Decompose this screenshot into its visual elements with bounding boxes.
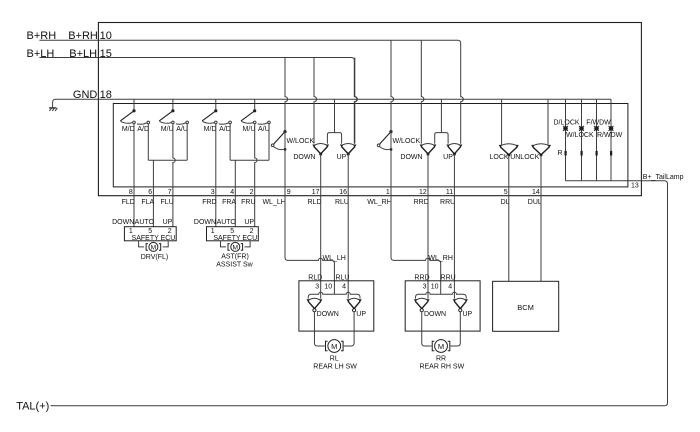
net label GND <box>73 89 98 101</box>
switch FR manual/auto down (M/D A/D) <box>202 99 231 133</box>
net label B+RH <box>27 30 98 42</box>
pin 1 WL_RH <box>367 189 392 206</box>
wire RRU (driver apex to pin 11) <box>453 154 455 196</box>
pin 5 DL <box>501 189 510 206</box>
net label RRU (rear box) <box>441 274 456 281</box>
svg-text:DRV(FL): DRV(FL) <box>141 254 168 261</box>
net label WL_LH <box>323 255 346 262</box>
svg-text:4: 4 <box>342 283 346 290</box>
switch W/LOCK right <box>377 130 420 151</box>
svg-text:DUL: DUL <box>528 199 542 206</box>
svg-text:10: 10 <box>431 283 439 290</box>
switch assembly inner box <box>113 104 628 187</box>
svg-text:REAR LH SW: REAR LH SW <box>313 364 357 371</box>
wire GND to LOCK driver <box>501 99 503 145</box>
wire DL (LOCK apex to pin 5) <box>508 155 510 196</box>
pin 6 FLA <box>141 189 154 206</box>
svg-text:UNLOCK: UNLOCK <box>510 154 540 161</box>
pin 10 <box>100 30 112 42</box>
resistor R4 <box>610 151 612 156</box>
pin 11 RRU <box>440 189 455 206</box>
svg-text:D/LOCK: D/LOCK <box>554 119 580 126</box>
wire RRD (driver apex to pin 12) <box>427 154 429 196</box>
wire FL auto join <box>148 159 187 161</box>
svg-text:M: M <box>151 244 157 251</box>
pin 13 <box>631 183 639 190</box>
BCM box <box>493 281 559 331</box>
svg-text:ASSIST Sw: ASSIST Sw <box>216 261 253 268</box>
svg-text:A/D: A/D <box>219 126 231 133</box>
wire WL_LH pin 9 to rear LH switch pin 10 <box>285 196 334 295</box>
driver UP rear-left (RLU) <box>337 143 357 161</box>
svg-text:M: M <box>331 342 337 351</box>
wire FRA (auto tap to pin 4) <box>234 160 236 227</box>
resistor R3 <box>596 151 598 156</box>
svg-text:M/U: M/U <box>161 126 174 133</box>
net label B+LH <box>27 48 98 60</box>
rear RH window switch unit <box>405 281 480 371</box>
wire FR A/D to auto join <box>229 124 231 161</box>
wire DUL pin 14 to BCM <box>540 196 542 282</box>
wire B+RH rail <box>39 40 463 144</box>
svg-text:10: 10 <box>324 283 332 290</box>
pin 9 WL_LH <box>262 189 290 206</box>
wire DL pin 5 to BCM <box>508 196 510 282</box>
wire RLU pin 16 to rear LH switch pin 4 <box>347 196 349 299</box>
svg-text:DOWN: DOWN <box>400 154 422 161</box>
svg-text:W/LOCK: W/LOCK <box>566 132 594 139</box>
svg-text:A/U: A/U <box>258 126 270 133</box>
svg-text:R/WDW: R/WDW <box>597 132 623 139</box>
resistor R1 <box>565 151 567 156</box>
wire FRD (M/D to pin 3) <box>215 124 217 227</box>
svg-text:RRD: RRD <box>414 274 429 281</box>
driver LOCK <box>490 144 519 162</box>
svg-text:RR: RR <box>436 355 446 362</box>
switch FL manual/auto up (M/U A/U) <box>159 99 188 133</box>
svg-text:AUTO: AUTO <box>217 219 237 226</box>
feed tee RRD/RRU from GND <box>435 99 448 143</box>
wire FL A/U to auto join <box>186 124 188 161</box>
svg-text:A/D: A/D <box>137 126 149 133</box>
wire B+LH rail <box>39 58 356 144</box>
svg-text:B+_TailLamp: B+_TailLamp <box>643 174 684 181</box>
safety ECU (assist/front-right) with motor AST(FR) <box>194 219 258 268</box>
svg-text:REAR RH SW: REAR RH SW <box>419 364 464 371</box>
switch FL manual/auto down (M/D A/D) <box>120 99 149 133</box>
svg-text:AST(FR): AST(FR) <box>221 254 249 261</box>
svg-text:RLU: RLU <box>335 199 349 206</box>
svg-text:UP: UP <box>463 311 473 318</box>
pin 18 <box>100 89 112 101</box>
wire FRU (M/U to pin 2) with hop <box>255 124 257 227</box>
svg-text:14: 14 <box>532 189 540 196</box>
pin 16 RLU <box>335 189 349 206</box>
wire RLU (driver apex to pin 16) <box>347 154 349 196</box>
feed tee RLD/RLU from GND <box>327 99 341 143</box>
svg-text:6: 6 <box>148 189 152 196</box>
LED indicator 2 wire <box>581 99 583 181</box>
svg-text:TAL(+): TAL(+) <box>16 400 49 412</box>
power window main switch unit box <box>98 23 641 196</box>
wire B+LH to RLU driver right input <box>355 58 358 144</box>
svg-text:4: 4 <box>448 283 452 290</box>
pin 12 RRD <box>414 189 429 206</box>
svg-text:11: 11 <box>446 189 453 196</box>
svg-text:UP: UP <box>443 154 453 161</box>
svg-text:16: 16 <box>339 189 347 196</box>
driver UP rear-right (RRU) <box>443 143 462 161</box>
LED indicator 1 wire <box>565 99 567 181</box>
wire DUL (UNLOCK apex to pin 14) <box>540 155 542 196</box>
svg-text:17: 17 <box>312 189 320 196</box>
net label RLD (rear box) <box>308 274 322 281</box>
label R/WDW indicator <box>597 132 623 139</box>
pin 3 FRD <box>202 189 216 206</box>
LED indicator 3 <box>594 126 599 131</box>
svg-text:FRA: FRA <box>222 199 236 206</box>
wire RRU pin 11 to rear RH switch pin 4 <box>453 196 455 299</box>
svg-text:FLA: FLA <box>141 199 154 206</box>
svg-text:1: 1 <box>386 189 390 196</box>
svg-text:9: 9 <box>287 189 291 196</box>
svg-text:RRU: RRU <box>441 274 456 281</box>
svg-text:RRD: RRD <box>414 199 429 206</box>
label D/LOCK indicator <box>554 119 580 126</box>
resistor R2 <box>581 151 583 156</box>
net label TAL(+) <box>16 400 49 412</box>
LED indicator 1 <box>563 126 568 131</box>
svg-text:RLD: RLD <box>307 199 321 206</box>
driver DOWN rear-right (RRD) <box>400 143 436 161</box>
wire FLA (auto tap to pin 6) <box>152 160 154 227</box>
wire RLD pin 17 to rear LH switch pin 3 <box>320 196 322 299</box>
svg-text:RRU: RRU <box>440 199 455 206</box>
svg-text:7: 7 <box>168 189 172 196</box>
svg-text:5: 5 <box>504 189 508 196</box>
wire FL A/D to auto join <box>147 124 149 161</box>
svg-text:DOWN: DOWN <box>424 311 446 318</box>
svg-text:FRU: FRU <box>241 199 255 206</box>
svg-text:4: 4 <box>230 189 234 196</box>
svg-text:M/D: M/D <box>204 126 217 133</box>
svg-text:UP: UP <box>163 219 173 226</box>
svg-text:8: 8 <box>129 189 133 196</box>
net label RRD (rear box) <box>414 274 429 281</box>
wire B+RH to RRD driver left input <box>421 40 424 143</box>
pin 8 FLD <box>122 189 135 206</box>
net label WL_RH <box>428 255 453 262</box>
svg-text:M/D: M/D <box>122 126 135 133</box>
rear LH window switch unit <box>299 281 374 371</box>
LED indicator 3 wire <box>596 99 598 181</box>
svg-text:SAFETY ECU: SAFETY ECU <box>132 235 176 242</box>
svg-text:DOWN: DOWN <box>293 154 315 161</box>
label W/LOCK indicator <box>566 132 594 139</box>
svg-text:3: 3 <box>211 189 215 196</box>
svg-text:12: 12 <box>419 189 427 196</box>
svg-text:2: 2 <box>250 189 254 196</box>
svg-text:M/U: M/U <box>243 126 256 133</box>
svg-text:M: M <box>233 244 239 251</box>
svg-text:WL_RH: WL_RH <box>367 199 392 206</box>
svg-text:M: M <box>438 342 444 351</box>
svg-text:WL_RH: WL_RH <box>428 255 453 262</box>
svg-text:W/LOCK: W/LOCK <box>287 138 315 145</box>
driver DOWN rear-left (RLD) <box>293 143 329 161</box>
wire WL_LH (B+LH rail through lock switch to pin 9) <box>285 58 288 196</box>
svg-text:RL: RL <box>330 355 339 362</box>
wire FR auto join <box>230 159 269 161</box>
wire RLD (driver apex to pin 17) <box>320 154 322 196</box>
wire RRD pin 12 to rear RH switch pin 3 <box>427 196 429 299</box>
svg-text:AUTO: AUTO <box>135 219 155 226</box>
svg-text:R: R <box>558 150 563 157</box>
wire B+LH to RLD driver left input <box>314 58 317 144</box>
pin 7 FLU <box>160 189 173 206</box>
svg-text:BCM: BCM <box>517 303 534 312</box>
svg-text:FLD: FLD <box>122 199 135 206</box>
switch W/LOCK left <box>271 130 314 151</box>
svg-text:SAFETY ECU: SAFETY ECU <box>213 235 257 242</box>
svg-text:UP: UP <box>356 311 366 318</box>
net label RLU (rear box) <box>335 274 349 281</box>
LED indicator 4 wire <box>610 99 612 181</box>
wire FR A/U to auto join <box>268 124 270 161</box>
LED indicator 4 <box>609 126 614 131</box>
wire WL_RH pin 1 to rear RH switch pin 10 <box>391 196 441 295</box>
svg-text:DOWN: DOWN <box>317 311 339 318</box>
switch FR manual/auto up (M/U A/U) <box>241 99 270 133</box>
pin 15 <box>100 48 112 60</box>
wire GND to UNLOCK driver <box>547 99 549 145</box>
svg-text:UP: UP <box>337 154 347 161</box>
ground symbol <box>49 108 57 111</box>
wire GND rail <box>53 99 611 108</box>
svg-text:LOCK: LOCK <box>490 154 509 161</box>
svg-text:RLD: RLD <box>308 274 322 281</box>
svg-text:DOWN: DOWN <box>194 219 216 226</box>
label F/WDW indicator <box>586 119 611 126</box>
svg-text:FLU: FLU <box>160 199 173 206</box>
label R (resistors) <box>558 150 563 157</box>
svg-text:13: 13 <box>631 183 639 190</box>
wire tail lamp illumination feed (pin 13 to TAL+) <box>51 181 668 406</box>
driver UNLOCK <box>510 144 551 162</box>
label B+_TailLamp <box>643 174 684 181</box>
pin 4 FRA <box>222 189 236 206</box>
svg-text:A/U: A/U <box>176 126 188 133</box>
svg-text:F/WDW: F/WDW <box>586 119 611 126</box>
LED indicator 2 <box>579 126 584 131</box>
svg-text:3: 3 <box>315 283 319 290</box>
wire FLU (M/U to pin 7) with hop <box>173 124 175 227</box>
svg-text:DOWN: DOWN <box>112 219 134 226</box>
svg-text:W/LOCK: W/LOCK <box>393 138 421 145</box>
svg-text:WL_LH: WL_LH <box>262 199 285 206</box>
pin 17 RLD <box>307 189 321 206</box>
svg-text:3: 3 <box>423 283 427 290</box>
svg-text:RLU: RLU <box>335 274 349 281</box>
wire WL_RH (B+RH rail through lock switch to pin 1) <box>391 40 394 196</box>
pin 14 DUL <box>528 189 542 206</box>
pin 2 FRU <box>241 189 255 206</box>
safety ECU (driver/front-left) with motor DRV(FL) <box>112 219 176 261</box>
svg-text:FRD: FRD <box>202 199 216 206</box>
svg-text:UP: UP <box>244 219 254 226</box>
svg-text:WL_LH: WL_LH <box>323 255 346 262</box>
wire FLD (M/D to pin 8) <box>133 124 135 227</box>
